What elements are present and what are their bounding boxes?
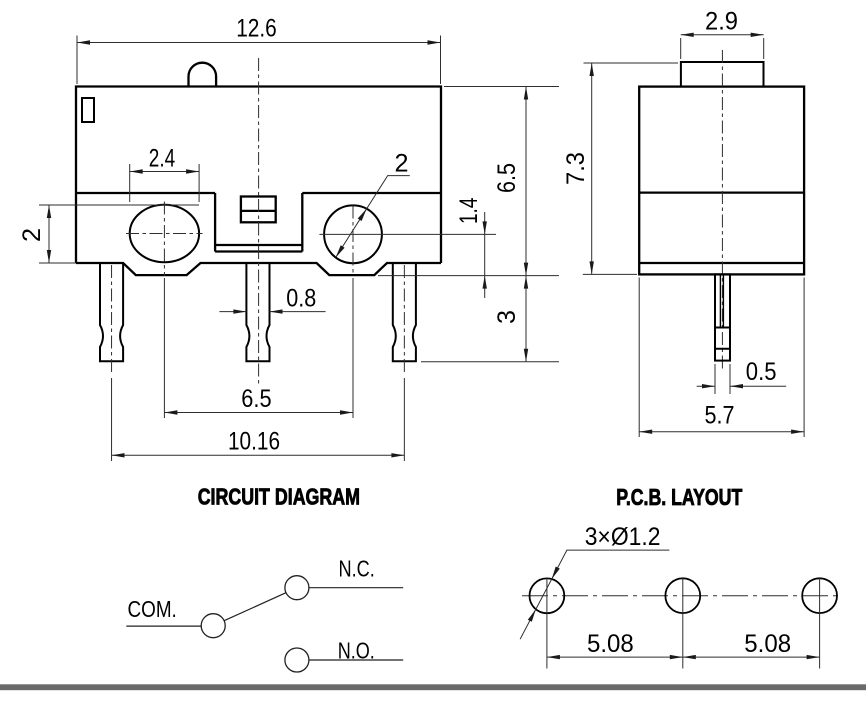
pcb hole 1 [530,578,565,613]
side view terminal pin [715,274,730,360]
svg-text:5.08: 5.08 [744,630,791,658]
left ellipse horizontal centerline [126,233,203,235]
left mounting hole ellipse 2.4 x 2 [130,205,199,262]
svg-text:3×Ø1.2: 3×Ø1.2 [585,523,661,551]
svg-text:P.C.B. LAYOUT: P.C.B. LAYOUT [616,484,742,510]
pcb horizontal centerline [522,595,837,597]
dimension 0.5 lines with outside arrows [697,385,787,387]
right circle vertical centerline [352,206,354,277]
svg-text:2: 2 [18,228,46,242]
COM terminal circle [201,614,225,638]
dimension 5.7 line [639,431,804,433]
small window rectangle top-left of body [82,98,94,122]
dimension 12.6 line [77,42,441,44]
terminal block divider line [241,210,276,212]
dimension 12.6 extension lines [77,36,441,85]
left ellipse vertical centerline [163,202,165,277]
dimension 12.6 arrows [77,40,441,44]
svg-text:5.08: 5.08 [587,630,634,658]
svg-text:N.C.: N.C. [339,555,375,581]
dimension 5.08 right arrows [683,655,820,659]
right pin centerline [403,265,405,375]
dimension 7.3 line [591,63,593,274]
svg-text:2: 2 [395,150,409,178]
dimension 7.3 arrows [590,63,594,274]
svg-text:3: 3 [493,310,521,324]
dimension 1.4 extension line (circle centerline) [319,233,496,235]
dimension 2 left extension lines [39,205,199,263]
svg-text:6.5: 6.5 [241,385,271,413]
svg-text:CIRCUIT DIAGRAM: CIRCUIT DIAGRAM [198,484,360,510]
plunger button dome on top [189,63,217,87]
dimension 6.5 bottom arrows [164,410,353,414]
dimension 10.16 extension lines [112,378,405,461]
dimension 2.4 extension lines [130,164,199,202]
dimension 3 line [525,276,527,362]
switch lever wire [224,593,286,621]
side view pin crimp lines [715,328,730,349]
svg-text:0.8: 0.8 [286,285,316,313]
N.C. terminal circle [285,576,309,600]
svg-text:0.5: 0.5 [746,358,777,386]
center terminal pin [246,263,269,361]
dimension 6.5 bottom extension lines [164,278,353,418]
central recess walls and floor [215,193,302,252]
dimension 6.5 right arrows [524,87,528,276]
dimension 2.9 arrows [681,33,764,37]
dimension 1.4 line with outside arrows [484,212,486,298]
callout dia 2 arrows [336,209,367,258]
dimension 7.3 extension lines [583,63,678,274]
left terminal pin [100,263,123,361]
svg-text:COM.: COM. [128,596,177,622]
svg-text:1.4: 1.4 [455,198,483,224]
left pin centerline [111,265,113,375]
side view internal horizontal lines [639,193,804,263]
dimension 5.7 arrows [639,430,804,434]
pcb hole 2 [665,578,700,613]
dimension 5.08 left line [547,656,683,658]
dimension 0.8 arrows [233,309,282,313]
side view vertical centerline [721,50,723,372]
dimension 5.7 extension lines [639,278,804,438]
COM wire [126,625,201,627]
pcb hole 3 [802,578,837,613]
hole callout arrows [528,567,560,622]
side view pin inner fold lines [720,274,723,327]
svg-text:2.4: 2.4 [149,145,175,173]
svg-text:10.16: 10.16 [228,427,280,455]
dimension 3 extension line [421,361,559,363]
dimension 6.5 right extension lines [378,87,559,276]
hole callout leader line [520,550,669,639]
svg-text:N.O.: N.O. [338,637,375,663]
svg-text:7.3: 7.3 [562,152,590,185]
callout dia 2 leader line [336,176,410,258]
right mounting hole circle dia 2 [324,205,382,263]
N.O. wire [309,659,403,661]
side view plunger cap [681,62,764,87]
internal step line right [302,192,441,194]
svg-text:5.7: 5.7 [705,402,735,430]
bottom separator bar [0,684,866,690]
svg-text:12.6: 12.6 [236,15,277,43]
internal step line left [76,192,215,194]
dimension 2.9 line [681,34,764,36]
dimension 3 arrows [524,276,528,362]
pcb hole extension verticals [547,578,820,669]
side view body outline [639,87,804,275]
N.O. terminal circle [285,648,309,672]
dimension 0.5 arrows [702,384,743,388]
N.C. wire [309,587,403,589]
dimension 2 left line [48,205,50,263]
dimension 0.8 lines with outside arrows [219,311,325,313]
dimension 1.4 arrows [483,221,487,288]
front view vertical centerline [258,58,260,385]
dimension 2.4 arrows [130,169,199,173]
dimension 2.9 extension lines [681,38,764,59]
dimension 10.16 line [112,454,405,456]
dimension 5.08 right line [683,656,820,658]
dimension 2.4 line [130,171,199,173]
dimension 0.5 extension lines [715,364,730,394]
right terminal pin [393,263,416,361]
front view switch body outline [76,87,441,264]
dimension 6.5 bottom line [164,412,353,414]
svg-text:2.9: 2.9 [705,8,738,36]
dimension 10.16 arrows [112,453,405,457]
dimension 6.5 right line [525,87,527,276]
dimension 2 left arrows [47,205,51,263]
front view body bottom edge with mounting bosses [76,263,441,275]
dimension 5.08 left arrows [547,655,683,659]
terminal block rectangle in recess [241,197,276,223]
svg-text:6.5: 6.5 [493,163,521,193]
